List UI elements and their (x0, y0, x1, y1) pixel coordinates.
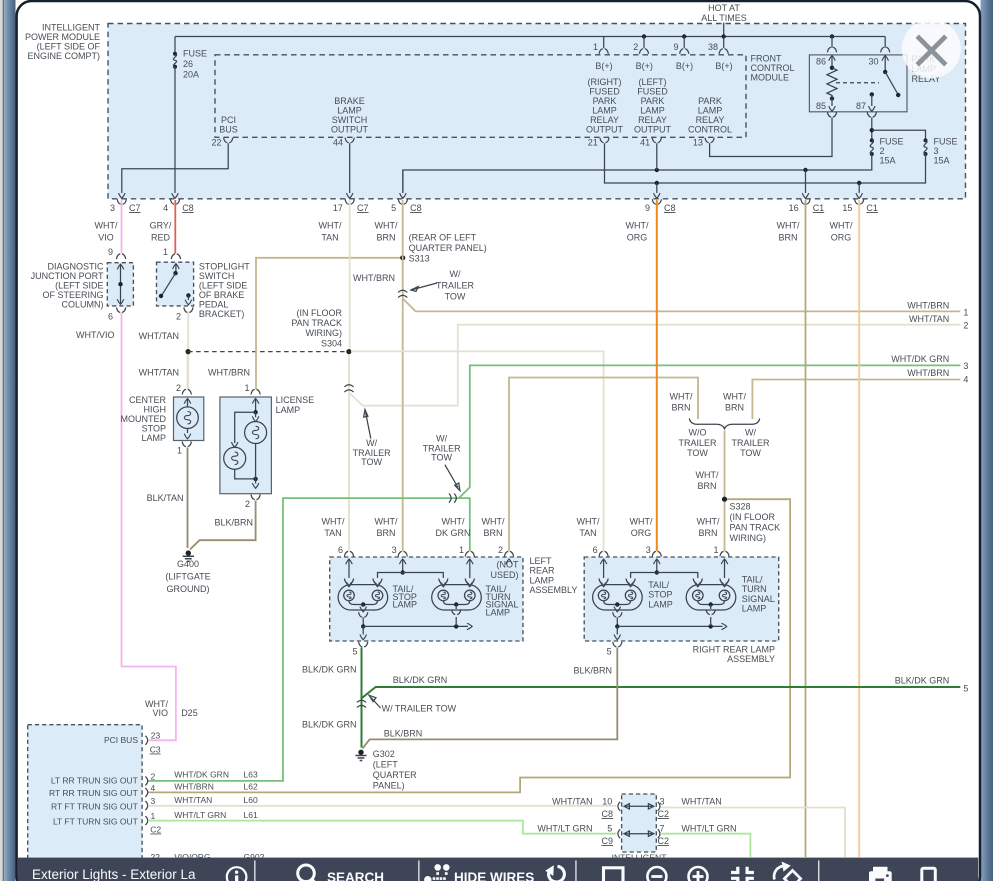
svg-text:23: 23 (151, 731, 161, 741)
svg-text:PARK: PARK (593, 96, 617, 106)
svg-text:2: 2 (963, 321, 968, 331)
label WHT/ORG right lamp pin3 (630, 517, 653, 539)
svg-text:WIRING): WIRING) (730, 533, 767, 543)
inline connector on WHT/BRN (398, 290, 407, 297)
label WHT/BRN left lamp pin3 (375, 517, 398, 539)
svg-text:WHT/: WHT/ (697, 517, 720, 527)
svg-text:(RIGHT): (RIGHT) (588, 77, 622, 87)
connector pin 3 C7 (110, 193, 141, 213)
wire: pin44 to pin17 (349, 143, 351, 193)
svg-text:TRAILER: TRAILER (731, 438, 770, 448)
relay pin 86 (816, 47, 837, 68)
label: S304 in floor pan track wiring (291, 308, 342, 349)
label WHT/ORG pin15 (830, 221, 853, 243)
svg-text:BRN: BRN (725, 403, 744, 413)
center high mounted stop lamp box (174, 397, 204, 441)
svg-text:FUSED: FUSED (589, 87, 620, 97)
svg-text:WHT/: WHT/ (375, 517, 398, 527)
svg-text:C8: C8 (602, 809, 614, 819)
svg-text:(IN FLOOR: (IN FLOOR (296, 308, 342, 318)
toolbar info icon (227, 867, 247, 881)
svg-text:TOW: TOW (431, 453, 452, 463)
svg-text:1: 1 (151, 811, 156, 821)
label: fuse 3 15A (934, 137, 958, 166)
label: center high mounted stop lamp (121, 395, 167, 443)
svg-text:C8: C8 (410, 203, 422, 213)
license lamp bulb right (245, 422, 267, 444)
svg-text:RIGHT REAR LAMP: RIGHT REAR LAMP (693, 645, 775, 655)
svg-text:BRN: BRN (778, 233, 797, 243)
svg-text:WHT/TAN: WHT/TAN (681, 797, 721, 807)
svg-text:86: 86 (816, 57, 826, 67)
svg-text:1: 1 (593, 42, 598, 52)
label: pci bus (219, 115, 238, 135)
front control module box (215, 55, 746, 138)
svg-text:OUTPUT: OUTPUT (331, 125, 369, 135)
toolbar separator 3 (575, 860, 576, 881)
svg-text:3: 3 (660, 797, 665, 807)
toolbar separator 2 (418, 860, 419, 881)
toolbar rotate icon (545, 865, 564, 881)
connector pin 16 C1 (789, 193, 825, 213)
close button X (917, 36, 946, 65)
svg-text:BRN: BRN (376, 528, 395, 538)
svg-text:WHT/TAN: WHT/TAN (174, 795, 212, 805)
svg-text:WHT/: WHT/ (777, 221, 800, 231)
right tail/turn signal lamp body (686, 585, 736, 615)
wire: pin22 to pin3 (122, 143, 228, 193)
svg-text:WHT/VIO: WHT/VIO (76, 330, 115, 340)
svg-text:(LEFT SIDE: (LEFT SIDE (55, 281, 103, 291)
license lamp bulb left (224, 447, 246, 469)
svg-text:3: 3 (151, 796, 156, 806)
label: stoplight switch (199, 262, 250, 320)
lower inline connector box (622, 794, 657, 852)
svg-text:1: 1 (713, 545, 718, 555)
pin 3 C2 (L60) (145, 795, 258, 810)
wire: bus drop to relay pin 86 (830, 34, 834, 47)
label: W/ trailer tow (tan jog) (353, 410, 392, 468)
svg-text:FUSED: FUSED (637, 87, 668, 97)
svg-text:1: 1 (459, 545, 464, 555)
svg-text:WHT/: WHT/ (375, 221, 398, 231)
wire WHT/TAN L60 run (148, 805, 617, 807)
park lamp relay box (809, 55, 907, 112)
wire WHT/BRN pin16 C1 down (805, 200, 807, 857)
svg-text:CENTER: CENTER (129, 395, 167, 405)
svg-text:SIGNAL: SIGNAL (742, 594, 775, 604)
fuse 26 (173, 52, 177, 69)
svg-text:ASSEMBLY: ASSEMBLY (530, 585, 578, 595)
svg-text:B(+): B(+) (676, 61, 693, 71)
stoplight switch box (157, 262, 194, 306)
stoplight switch pin 2 (176, 307, 193, 321)
CHMSL pin 1 (177, 442, 191, 456)
svg-text:ALL TIMES: ALL TIMES (701, 13, 747, 23)
svg-text:TRAILER: TRAILER (436, 281, 475, 291)
svg-text:LAMP: LAMP (337, 106, 362, 116)
toolbar hide-wires icon (424, 864, 450, 881)
wire WHT/BRN brace to S328 and right lamp pin 1 (724, 431, 726, 552)
svg-text:WHT/LT GRN: WHT/LT GRN (681, 824, 736, 834)
svg-text:POWER MODULE: POWER MODULE (25, 32, 100, 42)
wire WHT/LT GRN out right of connector (662, 834, 751, 857)
label: tail/turn signal lamp (right) (742, 575, 775, 614)
relay coil (827, 66, 837, 101)
FCM pin 9 (673, 34, 693, 71)
label WHT/VIO (lower) (145, 699, 168, 718)
svg-text:7: 7 (660, 824, 665, 834)
svg-text:6: 6 (338, 545, 343, 555)
relay pin 87 (856, 92, 876, 117)
svg-text:WHT/BRN: WHT/BRN (907, 300, 949, 310)
pin 23 C3 (145, 731, 160, 755)
left lamp pin 1 (459, 545, 474, 578)
svg-text:(NOT: (NOT (497, 560, 519, 570)
label: tail/turn signal lamp (left) (486, 584, 519, 617)
inline connector on WHT/TAN (344, 385, 353, 392)
svg-text:B(+): B(+) (636, 61, 653, 71)
toolbar export icon (774, 862, 801, 881)
label: park lamp relay (912, 54, 941, 84)
svg-text:G400: G400 (177, 559, 199, 569)
ground G400 (183, 550, 194, 561)
wire WHT/BRN S328 branch to L62 (148, 499, 790, 792)
wire WHT/DK GRN jog up to wire 3 (459, 365, 960, 498)
right tail/stop lamp terminals (599, 579, 635, 587)
svg-text:44: 44 (333, 138, 343, 148)
label WHT/VIO pin3 (95, 221, 118, 243)
wire WHT/LT GRN L61 run (148, 821, 617, 834)
svg-text:LAMP: LAMP (742, 604, 767, 614)
svg-text:16: 16 (789, 203, 799, 213)
svg-text:TOW: TOW (445, 292, 466, 302)
svg-text:VIO: VIO (98, 233, 114, 243)
svg-text:RED: RED (151, 233, 171, 243)
label: hot at all times (701, 3, 747, 23)
svg-text:3: 3 (934, 146, 939, 156)
wire: hot-at-all-times feed (723, 23, 725, 37)
toolbar search icon (298, 865, 318, 881)
svg-text:B(+): B(+) (595, 61, 612, 71)
svg-text:(LIFTGATE: (LIFTGATE (165, 572, 210, 582)
label: license lamp (276, 395, 315, 415)
svg-text:CONTROL: CONTROL (688, 125, 732, 135)
inline connector on BLK/DK GRN (357, 700, 366, 707)
wire BLK/BRN license to G400 (190, 501, 256, 550)
svg-text:1: 1 (163, 247, 168, 257)
svg-text:LT FT TURN SIG OUT: LT FT TURN SIG OUT (53, 817, 138, 827)
svg-text:BLK/TAN: BLK/TAN (147, 493, 184, 503)
svg-text:Exterior Lights - Exterior La: Exterior Lights - Exterior La (32, 867, 196, 881)
svg-text:WHT/DK GRN: WHT/DK GRN (891, 354, 949, 364)
svg-text:5: 5 (352, 647, 357, 657)
svg-text:(LEFT SIDE: (LEFT SIDE (199, 281, 247, 291)
svg-text:L61: L61 (244, 810, 258, 820)
svg-text:WHT/: WHT/ (830, 221, 853, 231)
wire GRY/RED pin4 to stoplight pin 1 (174, 200, 176, 254)
left lamp pin 2 (not used) (498, 545, 514, 564)
wire: pin41 down to line A (656, 143, 658, 170)
right lamp ground bus (613, 612, 727, 640)
svg-text:WHT/TAN: WHT/TAN (552, 797, 592, 807)
svg-text:WHT/: WHT/ (670, 392, 693, 402)
svg-text:C8: C8 (664, 203, 676, 213)
svg-text:LAMP: LAMP (592, 106, 617, 116)
svg-text:PARK: PARK (698, 96, 722, 106)
FCM pin 38 (708, 34, 733, 71)
wire WHT/TAN stoplight to CHMSL (187, 313, 189, 390)
svg-text:3: 3 (963, 361, 968, 371)
svg-text:WHT/LT GRN: WHT/LT GRN (174, 810, 226, 820)
svg-text:PARK: PARK (641, 96, 665, 106)
left tail/stop lamp body (338, 585, 388, 612)
svg-text:REAR: REAR (530, 566, 556, 576)
label WHT/DK GRN left lamp pin1 (435, 517, 470, 539)
svg-text:HOT AT: HOT AT (708, 3, 740, 13)
brace merging trailer tow branches (689, 419, 759, 429)
svg-text:STOP: STOP (142, 424, 166, 434)
svg-text:BRN: BRN (697, 481, 716, 491)
label WHT/TAN left lamp pin6 (322, 517, 345, 539)
svg-text:WHT/: WHT/ (442, 517, 465, 527)
svg-text:STOPLIGHT: STOPLIGHT (199, 262, 250, 272)
svg-text:VIO: VIO (152, 708, 168, 718)
label: W/O trailer tow (678, 428, 717, 459)
svg-text:GRY/: GRY/ (150, 221, 172, 231)
label WHT/TAN pin17 (319, 221, 342, 243)
svg-text:PCI BUS: PCI BUS (104, 735, 138, 745)
stoplight switch pin 1 (163, 247, 181, 259)
svg-text:PAN TRACK: PAN TRACK (291, 318, 342, 328)
svg-text:2: 2 (498, 545, 503, 555)
svg-text:WHT/: WHT/ (696, 470, 719, 480)
label: diagnostic junction port (31, 262, 104, 310)
svg-text:PEDAL: PEDAL (199, 300, 229, 310)
wire BLK/DK GRN left lamp pin5 to G302 (361, 648, 363, 748)
connector row 10 C8 / 3 C2 (618, 802, 660, 811)
right rear lamp assembly box (584, 557, 779, 641)
svg-text:D25: D25 (181, 708, 198, 718)
svg-text:RELAY: RELAY (590, 115, 619, 125)
svg-text:RT RR TRUN SIG OUT: RT RR TRUN SIG OUT (49, 788, 138, 798)
wire WHT/BRN pin5 to S313 and left lamp pin 3 (402, 200, 404, 551)
wire: relay 85 to pin 13 (710, 118, 832, 157)
svg-text:INTELLIGENT: INTELLIGENT (42, 23, 101, 33)
label: fuse 2 15A (880, 137, 904, 166)
svg-text:(LEFT: (LEFT (373, 760, 399, 770)
svg-text:RELAY: RELAY (638, 115, 667, 125)
left tail/stop lamp terminals (344, 579, 382, 587)
svg-text:TAIL/: TAIL/ (742, 575, 763, 585)
svg-text:QUARTER: QUARTER (373, 770, 417, 780)
svg-text:SWITCH: SWITCH (332, 115, 368, 125)
svg-text:WHT/LT GRN: WHT/LT GRN (537, 824, 592, 834)
svg-text:PCI: PCI (221, 115, 236, 125)
label WHT/BRN pin16 (777, 221, 800, 243)
wire: line B drop to pin 15 (858, 183, 860, 193)
svg-text:BLK/DK GRN: BLK/DK GRN (895, 676, 950, 686)
svg-text:TAN: TAN (321, 233, 338, 243)
svg-text:GROUND): GROUND) (167, 584, 210, 594)
left lamp pin 6 (338, 545, 354, 578)
label: left rear lamp assembly (530, 556, 578, 595)
svg-text:LAMP: LAMP (698, 106, 723, 116)
label: W/ trailer tow (green jog) (423, 434, 462, 491)
FCM pin 21 (588, 138, 609, 148)
label: S328 in floor pan track wiring (730, 502, 781, 544)
svg-text:5: 5 (391, 203, 396, 213)
svg-text:C2: C2 (658, 836, 670, 846)
left lamp ground bus (359, 612, 473, 640)
wire WHT/TAN S304 to right lamp pin 6 (351, 351, 604, 551)
svg-text:C2: C2 (150, 825, 161, 835)
svg-text:DK GRN: DK GRN (435, 528, 470, 538)
svg-text:W/: W/ (450, 269, 461, 279)
svg-text:CONTROL: CONTROL (751, 63, 795, 73)
label: G400 liftgate ground (165, 559, 210, 594)
svg-text:BUS: BUS (219, 125, 238, 135)
svg-text:COLUMN): COLUMN) (62, 300, 104, 310)
svg-text:3: 3 (110, 203, 115, 213)
svg-text:RELAY: RELAY (696, 115, 725, 125)
svg-text:C2: C2 (658, 809, 670, 819)
svg-text:1: 1 (177, 446, 182, 456)
svg-text:2: 2 (245, 499, 250, 509)
connector row 5 C9 / 7 C2 (618, 829, 660, 838)
splice S304 dashed link (186, 349, 352, 354)
svg-text:5: 5 (607, 824, 612, 834)
right lamp pin 3 (646, 545, 662, 573)
wire WHT/TAN S304 to left lamp pin 6 (348, 354, 350, 551)
diagnostic junction port box (107, 263, 133, 306)
wire: line A fuse2 output bus (403, 154, 872, 193)
svg-text:LAMP: LAMP (486, 607, 511, 617)
svg-text:2: 2 (633, 42, 638, 52)
svg-text:JUNCTION PORT: JUNCTION PORT (31, 271, 104, 281)
svg-text:BLK/DK GRN: BLK/DK GRN (302, 665, 357, 675)
wire: line A drop to pin 16 (805, 170, 807, 193)
wire WHT/TAN S304 to CHMSL pin 2 (187, 354, 189, 389)
svg-text:4: 4 (963, 375, 968, 385)
svg-text:HIGH: HIGH (144, 405, 167, 415)
toolbar print icon (869, 867, 892, 881)
svg-text:BRAKE: BRAKE (334, 96, 365, 106)
wire: B+ bus from fuse 26 to relay (175, 36, 885, 38)
svg-text:22: 22 (211, 138, 221, 148)
svg-text:B(+): B(+) (715, 61, 732, 71)
svg-text:2: 2 (176, 383, 181, 393)
svg-text:TURN: TURN (742, 584, 767, 594)
svg-text:BRN: BRN (376, 233, 395, 243)
svg-text:C7: C7 (129, 203, 141, 213)
svg-text:HIDE WIRES: HIDE WIRES (454, 870, 534, 881)
svg-text:ORG: ORG (831, 233, 852, 243)
svg-text:C1: C1 (813, 203, 825, 213)
svg-text:LAMP: LAMP (648, 599, 673, 609)
FCM pin 41 (640, 138, 661, 148)
svg-text:LAMP: LAMP (640, 106, 665, 116)
svg-text:9: 9 (645, 203, 650, 213)
label: S313 rear of left quarter panel (409, 233, 487, 264)
fuse 2 (870, 138, 874, 156)
svg-text:85: 85 (816, 101, 826, 111)
svg-text:1: 1 (244, 383, 249, 393)
svg-text:STOP: STOP (648, 590, 672, 600)
svg-text:C8: C8 (182, 203, 194, 213)
wire WHT/BRN trailer-tow jog to wire 1 (403, 298, 961, 311)
diagnostic junction port pin 6 (108, 307, 126, 321)
label: fuse 26 20A (183, 49, 207, 80)
svg-text:6: 6 (108, 312, 113, 322)
FCM pin 2 (633, 34, 653, 71)
close button circle (902, 19, 961, 78)
left tail/turn signal lamp body (432, 585, 482, 615)
left rear lamp assembly box (330, 557, 523, 641)
svg-text:WHT/: WHT/ (626, 221, 649, 231)
svg-text:LAMP: LAMP (530, 575, 555, 585)
label: (left) fused park lamp relay output (634, 77, 672, 135)
label: W/ trailer tow (ground branch) (369, 695, 457, 713)
svg-text:5: 5 (963, 684, 968, 694)
svg-text:15: 15 (842, 203, 852, 213)
svg-text:C7: C7 (357, 203, 369, 213)
labels row 10 C8 / 3 C2 (552, 797, 722, 820)
svg-text:ASSEMBLY: ASSEMBLY (727, 654, 775, 664)
svg-text:BLK/BRN: BLK/BRN (384, 729, 423, 739)
svg-text:S328: S328 (730, 502, 751, 512)
svg-text:FRONT: FRONT (751, 54, 782, 64)
svg-text:L62: L62 (244, 782, 258, 792)
FCM pin 1 (593, 37, 613, 72)
svg-text:C3: C3 (150, 745, 161, 755)
license lamp box (220, 397, 272, 494)
toolbar separator 4 (818, 860, 819, 881)
svg-text:13: 13 (693, 138, 703, 148)
svg-text:WHT/: WHT/ (482, 517, 505, 527)
svg-text:FUSE: FUSE (934, 137, 958, 147)
relay pin 30 (868, 47, 889, 72)
svg-text:S304: S304 (321, 339, 342, 349)
svg-text:1: 1 (963, 308, 968, 318)
wire: relay 87 to fuses 2 and 3 (870, 118, 926, 141)
label WHT/BRN pin5 (375, 221, 398, 243)
svg-text:MOUNTED: MOUNTED (121, 414, 167, 424)
label wire 2 WHT/TAN (909, 314, 968, 331)
labels row 5 C9 / 7 C2 (537, 824, 736, 847)
FCM pin 13 (693, 138, 714, 148)
svg-text:(REAR OF LEFT: (REAR OF LEFT (409, 233, 477, 243)
license lamp internal wiring (231, 399, 259, 489)
svg-text:87: 87 (856, 101, 866, 111)
svg-text:W/O: W/O (689, 428, 707, 438)
diagnostic junction port pin 9 (108, 247, 126, 259)
label: brake lamp switch output (331, 96, 369, 135)
svg-text:BLK/BRN: BLK/BRN (214, 518, 253, 528)
svg-text:3: 3 (392, 545, 397, 555)
svg-text:MODULE: MODULE (751, 73, 790, 83)
intelligent power module box (108, 24, 966, 199)
svg-text:LICENSE: LICENSE (276, 395, 315, 405)
label: (right) fused park lamp relay output (586, 77, 624, 135)
svg-text:WHT/DK GRN: WHT/DK GRN (174, 770, 229, 780)
wire: fuse 26 to pin 4 (174, 67, 176, 193)
wire WHT/TAN out right of connector (662, 808, 846, 858)
label: W/ trailer tow (right) (731, 428, 770, 459)
wire: fuse 26 feed down (174, 37, 176, 54)
CHMSL bulb (177, 399, 199, 439)
svg-text:ORG: ORG (631, 528, 652, 538)
